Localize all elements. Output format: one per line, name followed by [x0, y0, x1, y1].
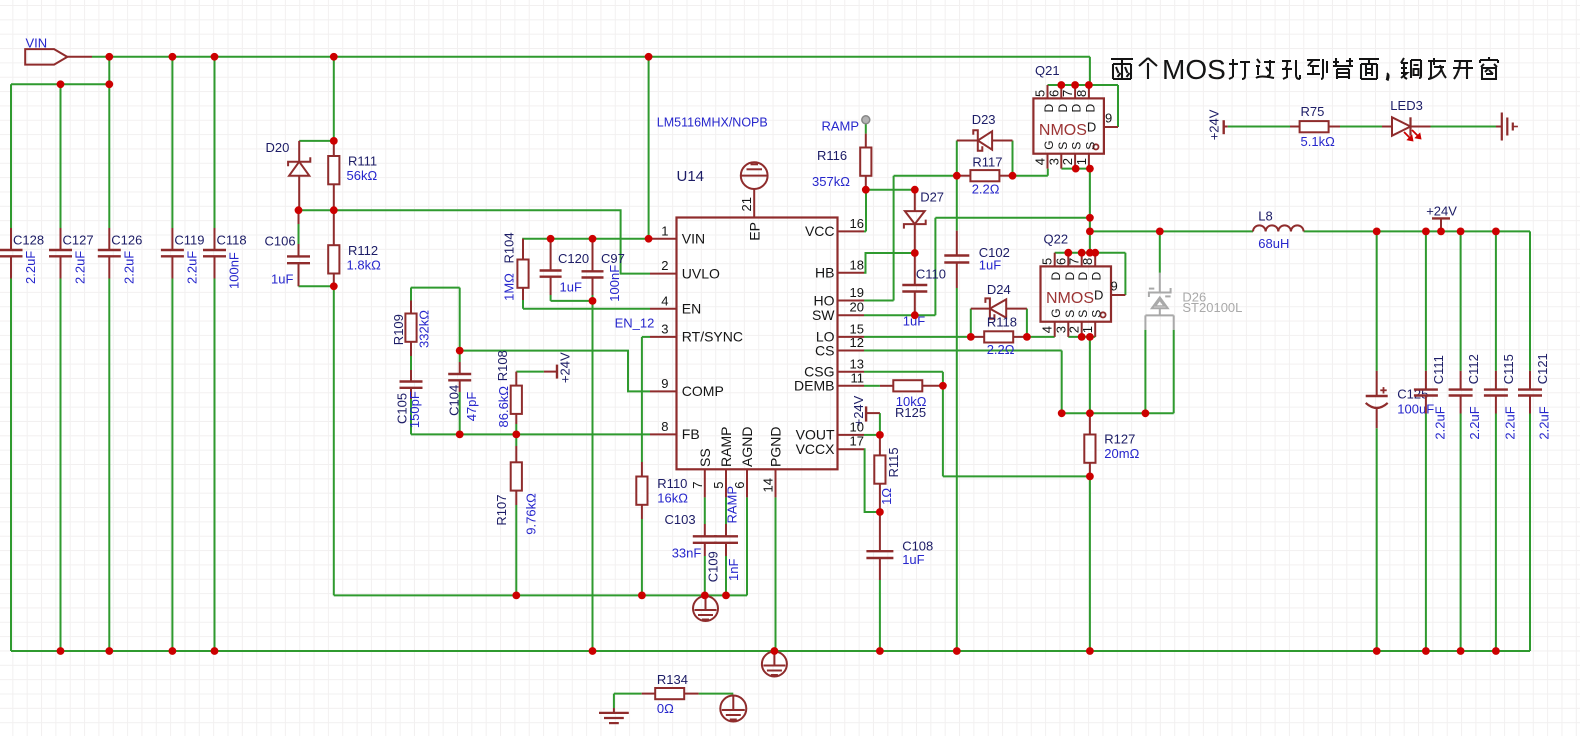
wire PGND column — [775, 497, 777, 651]
capacitor C120 — [540, 239, 589, 295]
svg-text:CS: CS — [815, 342, 834, 358]
svg-text:VIN: VIN — [26, 35, 48, 50]
svg-text:150pF: 150pF — [407, 391, 422, 428]
svg-text:1: 1 — [1074, 158, 1089, 165]
wire C102 column — [956, 176, 958, 651]
diode D20 — [266, 140, 311, 210]
svg-text:86.6kΩ: 86.6kΩ — [496, 386, 511, 428]
svg-text:D: D — [1087, 119, 1096, 134]
svg-text:1nF: 1nF — [726, 559, 741, 581]
wire HO net — [864, 176, 957, 301]
svg-text:EP: EP — [747, 222, 763, 241]
svg-text:2.2Ω: 2.2Ω — [972, 182, 1000, 197]
svg-text:S: S — [1070, 142, 1084, 150]
svg-text:PGND: PGND — [768, 427, 784, 467]
svg-text:56kΩ: 56kΩ — [347, 168, 378, 183]
svg-text:9: 9 — [1111, 279, 1118, 294]
svg-text:4: 4 — [1033, 158, 1048, 165]
svg-text:Q22: Q22 — [1044, 232, 1069, 247]
svg-text:R112: R112 — [348, 243, 378, 258]
wire D26 anode loop — [1145, 330, 1173, 414]
capacitor C121 — [1518, 353, 1552, 439]
svg-text:S: S — [1063, 310, 1077, 318]
svg-text:D20: D20 — [266, 140, 290, 155]
diode D24 — [971, 282, 1027, 319]
svg-text:20: 20 — [850, 300, 864, 315]
svg-text:C97: C97 — [601, 251, 625, 266]
net label RAMP — [725, 486, 740, 524]
svg-text:13: 13 — [850, 356, 864, 371]
transistor Q21 — [1033, 63, 1119, 169]
svg-text:D: D — [1063, 272, 1077, 281]
resistor R127 — [1084, 413, 1139, 476]
svg-text:C103: C103 — [665, 512, 696, 527]
svg-text:12: 12 — [850, 335, 864, 350]
wire VIN input-cap rail — [11, 83, 109, 85]
svg-text:100nF: 100nF — [227, 252, 242, 289]
svg-text:U14: U14 — [677, 168, 705, 185]
svg-text:8: 8 — [1074, 90, 1089, 97]
svg-text:C127: C127 — [63, 233, 94, 248]
capacitor C97 — [582, 239, 625, 302]
wire CSG net — [864, 372, 943, 386]
capacitor C109 — [705, 524, 741, 582]
wire VIN to D20/R111 — [299, 57, 334, 141]
resistor R116 — [812, 134, 871, 190]
svg-text:2: 2 — [1060, 158, 1075, 165]
wire C105 to FB rail — [410, 399, 412, 434]
svg-text:19: 19 — [850, 285, 864, 300]
svg-text:NMOS: NMOS — [1046, 290, 1094, 307]
wire C115 column — [1495, 231, 1497, 651]
ground R134 circled — [720, 696, 746, 722]
svg-text:33nF: 33nF — [672, 546, 702, 561]
port VIN — [25, 35, 92, 64]
svg-text:16kΩ: 16kΩ — [657, 490, 688, 505]
svg-text:SS: SS — [697, 448, 713, 467]
svg-text:C106: C106 — [265, 234, 296, 249]
svg-text:C115: C115 — [1501, 354, 1516, 384]
wire VCC net — [864, 190, 866, 232]
svg-text:S: S — [1076, 310, 1090, 318]
resistor R134 — [642, 672, 699, 716]
power +24V at R75 — [1207, 109, 1228, 140]
pin row U14 bottom pins — [690, 427, 784, 498]
wire AGND pin column — [746, 497, 748, 595]
svg-text:2.2uF: 2.2uF — [121, 251, 136, 284]
op-amp U14 LM5116 body — [657, 115, 838, 469]
wire LED rail — [1228, 126, 1496, 128]
svg-text:1uF: 1uF — [902, 552, 924, 567]
svg-text:2.2uF: 2.2uF — [184, 251, 199, 284]
svg-text:R134: R134 — [657, 672, 688, 687]
wire C118 column — [214, 57, 216, 651]
svg-text:3: 3 — [1046, 158, 1061, 165]
resistor R107 — [494, 446, 539, 535]
power +24V output rail — [1426, 204, 1457, 232]
svg-text:C126: C126 — [111, 233, 142, 248]
svg-text:R116: R116 — [817, 148, 847, 163]
capacitor C111 — [1414, 355, 1448, 439]
svg-text:ST20100L: ST20100L — [1182, 300, 1242, 315]
wire VCCX net — [864, 449, 880, 512]
svg-text:5.1kΩ: 5.1kΩ — [1301, 134, 1336, 149]
svg-text:VCCX: VCCX — [796, 441, 836, 457]
svg-text:RT/SYNC: RT/SYNC — [682, 329, 743, 345]
wire Q22 gate — [1027, 336, 1055, 338]
svg-text:47pF: 47pF — [464, 392, 479, 422]
svg-text:R127: R127 — [1104, 432, 1135, 447]
svg-text:R125: R125 — [895, 405, 926, 420]
resistor R75 — [1290, 104, 1340, 149]
svg-text:G: G — [1049, 308, 1063, 317]
svg-text:D23: D23 — [972, 112, 996, 127]
resistor R104 — [502, 232, 529, 300]
wire HB net — [864, 253, 915, 273]
svg-text:2.2uF: 2.2uF — [73, 251, 88, 284]
svg-text:3: 3 — [661, 321, 668, 336]
svg-text:R115: R115 — [886, 447, 901, 477]
svg-text:R110: R110 — [657, 476, 687, 491]
resistor R109 — [391, 301, 431, 357]
wire C125 column — [1376, 231, 1378, 651]
wire AGND rail — [334, 594, 747, 596]
resistor R112 — [328, 210, 381, 286]
wire C119 column — [171, 57, 173, 651]
svg-text:2.2uF: 2.2uF — [1503, 406, 1518, 439]
wire R108 bottom — [515, 424, 517, 434]
svg-text:DEMB: DEMB — [794, 378, 834, 394]
capacitor C103 — [665, 512, 717, 561]
pin EP 21 pad symbol — [739, 162, 767, 240]
wire VIN top rail — [92, 57, 1090, 85]
svg-text:C112: C112 — [1466, 354, 1481, 384]
capacitor C118 — [203, 228, 247, 289]
wire L8 to +24V rail — [1304, 231, 1530, 651]
wire UVLO net — [299, 210, 651, 273]
svg-text:2.2uF: 2.2uF — [1467, 406, 1482, 439]
svg-text:1uF: 1uF — [979, 258, 1001, 273]
wire Q21 gate — [1013, 169, 1048, 176]
wire D24 parallel links — [971, 309, 1027, 337]
svg-text:RAMP: RAMP — [821, 119, 859, 134]
svg-text:D: D — [1094, 287, 1103, 302]
ground PGND circled — [762, 652, 787, 677]
wire LO net — [864, 336, 971, 338]
svg-text:1: 1 — [661, 223, 668, 238]
wire VOUT node — [864, 413, 880, 435]
svg-text:+24V: +24V — [1207, 109, 1222, 140]
svg-text:1uF: 1uF — [271, 272, 293, 287]
svg-text:RAMP: RAMP — [718, 427, 734, 467]
svg-text:0Ω: 0Ω — [657, 701, 674, 716]
svg-text:FB: FB — [682, 426, 700, 442]
svg-text:C118: C118 — [217, 233, 247, 248]
svg-text:5: 5 — [711, 481, 726, 488]
wire SW to L8 — [1090, 230, 1253, 232]
svg-text:VIN: VIN — [682, 231, 705, 247]
diode D26 — [1145, 273, 1242, 330]
wire D23 parallel links — [957, 141, 1013, 176]
capacitor C110 — [902, 253, 946, 329]
svg-text:R75: R75 — [1301, 104, 1325, 119]
svg-text:S: S — [1090, 310, 1104, 318]
svg-text:C104: C104 — [446, 385, 461, 416]
net port RAMP — [821, 116, 869, 134]
svg-text:HB: HB — [815, 265, 834, 281]
svg-text:+24V: +24V — [558, 352, 573, 383]
capacitor C125 — [1366, 371, 1435, 428]
wire C128 column — [10, 84, 12, 651]
diode D23 — [957, 112, 1013, 151]
inductor L8 — [1253, 209, 1304, 252]
svg-text:7: 7 — [690, 481, 705, 488]
led LED3 — [1382, 98, 1431, 140]
svg-text:21: 21 — [739, 197, 754, 211]
capacitor C106 — [265, 210, 311, 286]
annotation chinese text — [1111, 54, 1498, 85]
svg-text:68uH: 68uH — [1258, 236, 1289, 251]
svg-text:1.8kΩ: 1.8kΩ — [347, 257, 382, 272]
svg-text:D: D — [1083, 104, 1097, 113]
svg-text:2.2uF: 2.2uF — [1537, 406, 1552, 439]
wire C106 bottom to R112 — [299, 285, 334, 287]
svg-text:C121: C121 — [1535, 353, 1550, 384]
svg-text:D: D — [1090, 272, 1104, 281]
svg-text:HO: HO — [814, 292, 835, 308]
resistor R118 — [971, 315, 1027, 358]
svg-text:R108: R108 — [495, 350, 510, 381]
capacitor C102 — [944, 231, 1010, 288]
wire R134 right — [699, 693, 734, 695]
svg-text:D: D — [1049, 272, 1063, 281]
resistor R125 — [880, 380, 943, 420]
svg-text:AGND: AGND — [739, 427, 755, 467]
wire VCC to D27 — [866, 189, 915, 191]
svg-text:LED3: LED3 — [1390, 98, 1423, 113]
svg-text:EN_12: EN_12 — [615, 316, 655, 331]
ground AGND circled — [693, 596, 718, 621]
svg-text:4: 4 — [661, 293, 668, 308]
capacitor C105 — [395, 370, 423, 428]
svg-text:11: 11 — [851, 370, 865, 385]
svg-text:MOS: MOS — [1162, 54, 1226, 85]
svg-text:8: 8 — [661, 419, 668, 434]
ground earth at LED3 — [1496, 113, 1518, 141]
svg-text:1: 1 — [1080, 326, 1095, 333]
svg-text:14: 14 — [761, 478, 776, 492]
wire C108 bottom — [879, 580, 881, 651]
wire R109-C105 mid — [410, 356, 412, 370]
power +24V at VOUT — [851, 395, 880, 426]
svg-text:D: D — [1076, 272, 1090, 281]
svg-text:R111: R111 — [348, 154, 377, 169]
svg-text:9.76kΩ: 9.76kΩ — [524, 493, 539, 535]
svg-text:17: 17 — [850, 434, 864, 449]
wire Q22 source rail — [1068, 337, 1095, 413]
svg-text:C119: C119 — [174, 233, 204, 248]
svg-text:D: D — [1070, 104, 1084, 113]
wire Q21 drain rail — [1048, 85, 1119, 127]
resistor R111 — [328, 141, 377, 210]
svg-text:332kΩ: 332kΩ — [416, 310, 431, 348]
svg-text:C120: C120 — [558, 251, 589, 266]
svg-text:100uF: 100uF — [1397, 401, 1434, 416]
svg-text:C110: C110 — [916, 267, 946, 282]
wire SS column — [704, 497, 706, 595]
wire PGND bottom rail — [11, 650, 1530, 652]
wire CS net — [864, 351, 1145, 414]
resistor R117 — [957, 155, 1013, 197]
capacitor C104 — [446, 362, 479, 421]
power +24V at R108 — [544, 352, 573, 383]
wire C120/C97 gnd — [551, 295, 593, 651]
svg-text:6: 6 — [1046, 90, 1061, 97]
wire RT/SYNC to R110 — [642, 337, 650, 596]
svg-text:SW: SW — [812, 307, 835, 323]
svg-text:357kΩ: 357kΩ — [812, 174, 850, 189]
ground earth at R134 — [599, 708, 629, 723]
capacitor C115 — [1484, 354, 1518, 439]
svg-text:C111: C111 — [1431, 355, 1446, 384]
wire FB rail — [411, 433, 650, 435]
wire DEMB net — [864, 385, 880, 387]
svg-text:R118: R118 — [987, 315, 1017, 330]
wire VIN to pin1 — [522, 57, 650, 239]
svg-text:S: S — [1056, 142, 1070, 150]
svg-text:6: 6 — [732, 481, 747, 488]
capacitor C108 — [866, 512, 933, 580]
svg-text:R104: R104 — [502, 232, 517, 263]
svg-text:100nF: 100nF — [607, 265, 622, 302]
svg-text:COMP: COMP — [682, 383, 724, 399]
capacitor C119 — [161, 228, 205, 284]
svg-text:L8: L8 — [1258, 209, 1272, 224]
net label EN_12 — [615, 316, 655, 331]
svg-text:R117: R117 — [972, 155, 1002, 170]
wire R107 column — [515, 434, 517, 595]
svg-text:D: D — [1056, 104, 1070, 113]
svg-text:9: 9 — [661, 376, 668, 391]
wire C111 column — [1425, 231, 1427, 651]
diode D27 — [904, 189, 944, 253]
svg-text:NMOS: NMOS — [1039, 122, 1087, 139]
svg-text:S: S — [1083, 142, 1097, 150]
svg-text:R107: R107 — [494, 495, 509, 526]
svg-text:D: D — [1042, 104, 1056, 113]
svg-text:EN: EN — [682, 301, 701, 317]
svg-text:C128: C128 — [13, 233, 44, 248]
wire C104 leads — [459, 351, 461, 435]
svg-text:+24V: +24V — [1426, 204, 1457, 219]
svg-text:5: 5 — [1033, 90, 1048, 97]
svg-text:D24: D24 — [987, 282, 1011, 297]
wire R134 left — [614, 694, 642, 708]
svg-text:2: 2 — [661, 258, 668, 273]
svg-text:C109: C109 — [705, 551, 720, 582]
svg-text:+24V: +24V — [851, 395, 866, 426]
svg-text:7: 7 — [1060, 90, 1075, 97]
wire C127 column — [60, 84, 62, 651]
svg-text:1Ω: 1Ω — [879, 488, 894, 505]
svg-text:UVLO: UVLO — [682, 265, 720, 281]
capacitor C128 — [0, 228, 44, 284]
svg-text:1MΩ: 1MΩ — [502, 273, 517, 301]
svg-text:1uF: 1uF — [560, 280, 582, 295]
svg-text:Q21: Q21 — [1035, 63, 1060, 78]
svg-text:D27: D27 — [920, 189, 944, 204]
wire C126 column — [108, 57, 110, 651]
svg-text:VCC: VCC — [805, 223, 835, 239]
wire R108 top to +24V — [516, 371, 544, 373]
transistor Q22 — [1040, 232, 1126, 337]
svg-text:2.2uF: 2.2uF — [23, 251, 38, 284]
pin row U14 left pins — [650, 223, 743, 442]
svg-text:R109: R109 — [391, 314, 406, 345]
capacitor C127 — [49, 228, 94, 284]
svg-text:2.2uF: 2.2uF — [1433, 406, 1448, 439]
wire RAMP port lead — [865, 124, 867, 134]
pin row U14 right pins — [794, 216, 864, 457]
svg-text:LM5116MHX/NOPB: LM5116MHX/NOPB — [657, 115, 768, 129]
wire CSG/R125 to R127 bottom — [943, 386, 1090, 651]
svg-text:G: G — [1042, 140, 1056, 149]
resistor R115 — [874, 435, 901, 512]
resistor R110 — [636, 462, 688, 519]
wire D26 top — [1159, 231, 1161, 272]
capacitor C126 — [98, 228, 143, 284]
resistor R108 — [495, 350, 522, 427]
wire EN net — [523, 300, 650, 309]
wire Q22 drain rail — [1055, 253, 1126, 295]
svg-text:9: 9 — [1105, 111, 1112, 126]
svg-text:2.2Ω: 2.2Ω — [987, 342, 1015, 357]
wire AGND branch down — [333, 286, 335, 595]
wire Q21 source rail — [1061, 169, 1090, 253]
svg-text:20mΩ: 20mΩ — [1104, 446, 1139, 461]
svg-text:16: 16 — [850, 216, 864, 231]
wire SW net — [864, 218, 1090, 315]
svg-text:8: 8 — [1080, 258, 1095, 265]
wire C112 column — [1460, 231, 1462, 651]
wire COMP net — [411, 288, 650, 392]
wire C106 mid — [298, 224, 300, 244]
svg-text:18: 18 — [850, 257, 864, 272]
wire RAMP column — [725, 497, 727, 595]
capacitor C112 — [1449, 354, 1483, 439]
